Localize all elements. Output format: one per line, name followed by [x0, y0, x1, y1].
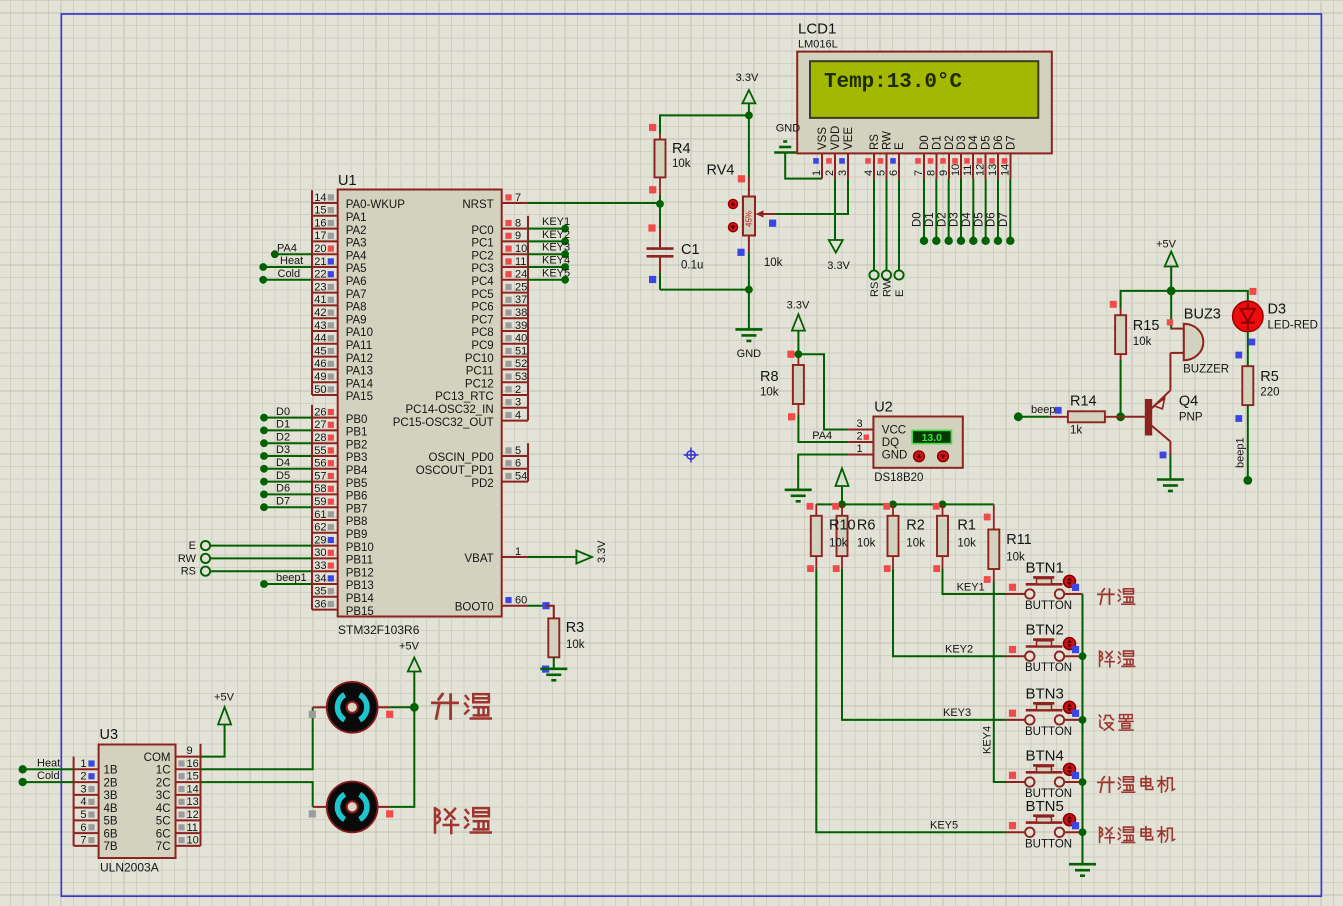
- junction rail at R6 top: [838, 501, 846, 509]
- svg-text:KEY4: KEY4: [542, 255, 570, 267]
- svg-text:1C: 1C: [156, 765, 171, 777]
- wire +5V rail (R15 / buzzer / D3): [1121, 291, 1248, 308]
- terminal E: [189, 540, 312, 552]
- schematic origin marker: [684, 448, 699, 463]
- svg-text:PC9: PC9: [471, 340, 493, 352]
- U2 pin 1 GND: [848, 443, 907, 462]
- U1 pin 46 PA13: [312, 357, 373, 378]
- svg-text:BTN5: BTN5: [1026, 798, 1064, 815]
- svg-text:D0: D0: [919, 135, 931, 150]
- svg-text:PA3: PA3: [346, 238, 367, 250]
- svg-text:NRST: NRST: [462, 199, 493, 211]
- svg-text:57: 57: [314, 470, 326, 482]
- svg-text:D2: D2: [944, 135, 956, 150]
- U1 pin 55 PB3: [312, 443, 367, 464]
- svg-text:10k: 10k: [672, 158, 691, 170]
- U3 pin 9 COM: [144, 744, 201, 764]
- svg-text:PB13: PB13: [346, 580, 374, 592]
- wire/net label KEY5: [528, 267, 570, 283]
- U1 pin 38 PC7: [471, 305, 528, 326]
- wire D4 from LCD pin 11: [961, 179, 978, 245]
- wire D5 from LCD pin 12: [973, 179, 990, 245]
- svg-text:BTN3: BTN3: [1026, 685, 1064, 702]
- U1 pin 7 NRST: [462, 192, 528, 211]
- LCD1 pin 11 D4: [962, 135, 980, 179]
- U2 pin 3 VCC: [848, 418, 906, 437]
- svg-text:PA0-WKUP: PA0-WKUP: [346, 199, 406, 211]
- power terminal 3.3V below LCD VDD: [827, 179, 850, 272]
- svg-text:Temp:13.0°C: Temp:13.0°C: [824, 71, 962, 94]
- svg-text:PA10: PA10: [346, 327, 373, 339]
- svg-text:0.1u: 0.1u: [681, 260, 703, 272]
- U1 pin 17 PA3: [312, 229, 367, 250]
- U1 pin 45 PA12: [312, 344, 373, 365]
- svg-text:1: 1: [515, 546, 521, 558]
- LCD1 pin 7 D0: [913, 135, 931, 178]
- svg-text:56: 56: [314, 458, 326, 470]
- power terminal +5V at U3 COM: [201, 692, 235, 757]
- resistor R6 10k: [832, 503, 875, 572]
- wire RV4 wiper to LCD VEE: [776, 179, 849, 214]
- label 升温电机 for BTN4: [1098, 776, 1175, 792]
- U1 pin 54 PD2: [471, 469, 528, 490]
- terminal D1: [260, 419, 312, 435]
- junction button rail: [1079, 828, 1087, 836]
- junction 3.3V rail node: [745, 112, 753, 120]
- svg-text:PC14-OSC32_IN: PC14-OSC32_IN: [405, 404, 493, 416]
- svg-text:E: E: [894, 142, 906, 150]
- U1 pin 21 PA5: [312, 254, 367, 275]
- wire C1 bottom / RV4 bottom to ground: [660, 289, 749, 291]
- svg-text:D0: D0: [912, 212, 924, 227]
- svg-text:11: 11: [962, 165, 974, 176]
- U1 pin 58 PB6: [312, 482, 367, 503]
- svg-text:RW: RW: [881, 278, 893, 297]
- svg-text:PC12: PC12: [465, 378, 494, 390]
- U1 pin 30 PB11: [312, 546, 373, 567]
- junction Q4 base node: [1116, 412, 1125, 421]
- wire D3 from LCD pin 10: [949, 179, 966, 245]
- wire Q4 collector to ground: [1160, 452, 1171, 479]
- svg-text:50: 50: [314, 384, 326, 396]
- svg-text:PC7: PC7: [471, 314, 493, 326]
- svg-text:41: 41: [314, 294, 326, 306]
- U1 pin 28 PB2: [312, 430, 367, 451]
- svg-text:D4: D4: [961, 212, 973, 227]
- svg-text:R8: R8: [760, 369, 779, 385]
- LCD1 pin 5 RW: [875, 131, 893, 179]
- power terminal 3.3V above R8: [787, 300, 810, 355]
- U3 pin 10 7C: [156, 833, 201, 853]
- svg-text:1B: 1B: [104, 765, 118, 777]
- svg-text:D1: D1: [276, 419, 290, 431]
- U1 pin 42 PA9: [312, 305, 367, 326]
- svg-text:BTN1: BTN1: [1026, 560, 1064, 577]
- svg-text:STM32F103R6: STM32F103R6: [338, 623, 420, 637]
- svg-text:beep1: beep1: [1234, 437, 1246, 468]
- svg-text:55: 55: [314, 445, 326, 457]
- wire R4 bottom to NRST node: [659, 195, 661, 204]
- terminal Heat: [259, 255, 312, 271]
- svg-text:GND: GND: [882, 450, 908, 462]
- svg-text:22: 22: [314, 269, 326, 281]
- LED D3 LED-RED: [1233, 288, 1318, 332]
- label heat motor: [433, 694, 491, 718]
- svg-text:7: 7: [80, 835, 86, 847]
- temperature sensor U2 DS18B20: [873, 400, 962, 485]
- svg-text:11: 11: [187, 822, 198, 834]
- svg-text:10k: 10k: [906, 538, 925, 550]
- U3 pin 2 2B: [74, 769, 118, 789]
- svg-text:Heat: Heat: [37, 757, 60, 769]
- svg-text:PNP: PNP: [1179, 412, 1203, 424]
- transistor Q4 PNP: [1121, 353, 1203, 455]
- svg-text:R10: R10: [829, 518, 856, 534]
- U1 pin 41 PA8: [312, 293, 367, 314]
- svg-text:KEY2: KEY2: [945, 644, 973, 656]
- wire R5 to beep1 terminal: [1234, 405, 1248, 480]
- terminal D2: [260, 431, 312, 447]
- U1 pin 49 PA14: [312, 369, 374, 390]
- wire NRST net (U1 pin7 to R4/C1 node): [528, 202, 660, 204]
- LCD1 LM016L display module: [797, 21, 1052, 154]
- svg-text:PC4: PC4: [471, 276, 494, 288]
- svg-text:BTN4: BTN4: [1026, 748, 1064, 765]
- wire/net label KEY2: [528, 229, 570, 245]
- svg-text:R5: R5: [1260, 369, 1279, 385]
- U1 pin 44 PA11: [312, 331, 372, 352]
- svg-text:3.3V: 3.3V: [736, 72, 759, 84]
- driver U3 ULN2003A body: [99, 727, 176, 875]
- svg-text:VCC: VCC: [882, 425, 906, 437]
- svg-text:7B: 7B: [104, 841, 118, 853]
- svg-text:1: 1: [857, 443, 863, 455]
- svg-text:PC3: PC3: [471, 263, 493, 275]
- svg-text:29: 29: [314, 534, 326, 546]
- svg-text:PC6: PC6: [471, 302, 493, 314]
- svg-text:KEY5: KEY5: [542, 267, 570, 279]
- svg-text:VBAT: VBAT: [465, 553, 494, 565]
- U1 pin 53 PC12: [465, 369, 528, 390]
- svg-text:13.0: 13.0: [922, 432, 943, 444]
- svg-text:GND: GND: [776, 123, 801, 135]
- svg-text:3: 3: [515, 397, 521, 409]
- svg-text:21: 21: [314, 256, 326, 268]
- svg-text:16: 16: [314, 217, 326, 229]
- svg-text:PA4: PA4: [277, 242, 297, 254]
- svg-text:D7: D7: [276, 495, 290, 507]
- U1 pin 60 BOOT0: [455, 595, 528, 614]
- LCD1 pin 8 D1: [925, 135, 943, 178]
- ground below Q4: [1157, 480, 1184, 492]
- svg-text:24: 24: [515, 269, 527, 281]
- motor M1 (heat): [309, 682, 394, 733]
- junction +5V rail at buzzer: [1167, 287, 1176, 296]
- terminal Heat at U3: [19, 757, 74, 773]
- U1 pin 20 PA4: [312, 241, 367, 262]
- resistor R5 220: [1235, 366, 1279, 422]
- svg-text:25: 25: [515, 281, 527, 293]
- U1 pin 2 PC13_RTC: [435, 382, 528, 403]
- svg-text:BUTTON: BUTTON: [1025, 600, 1072, 612]
- terminal RS below LCD: [869, 179, 881, 297]
- U1 pin 14 PA0-WKUP: [312, 190, 405, 211]
- LCD1 pin 14 D7: [999, 135, 1017, 178]
- label 降温电机 for BTN5: [1100, 827, 1175, 843]
- U1 pin 37 PC6: [471, 293, 528, 314]
- U1 pin 61 PB8: [312, 507, 367, 528]
- junction button rail: [1079, 652, 1087, 660]
- svg-text:2: 2: [857, 431, 863, 443]
- svg-text:4: 4: [80, 796, 86, 808]
- svg-text:36: 36: [314, 598, 326, 610]
- node indicator BOOT0 wire: [542, 602, 549, 609]
- svg-text:Heat: Heat: [280, 255, 303, 267]
- svg-text:D6: D6: [986, 212, 998, 227]
- svg-text:RW: RW: [178, 553, 197, 565]
- svg-text:2B: 2B: [104, 777, 118, 789]
- svg-text:D2: D2: [936, 212, 948, 227]
- svg-text:PA11: PA11: [346, 340, 372, 352]
- LCD1 pin 1 VSS: [811, 127, 829, 179]
- svg-text:PA13: PA13: [346, 366, 373, 378]
- svg-text:PC8: PC8: [471, 327, 493, 339]
- wire KEY5 net (R10 to BTN5): [816, 569, 1006, 833]
- svg-text:46: 46: [314, 358, 326, 370]
- svg-text:R3: R3: [566, 620, 585, 636]
- svg-text:D3: D3: [956, 135, 968, 150]
- wire/net label KEY4: [528, 255, 570, 271]
- svg-text:COM: COM: [144, 752, 171, 764]
- svg-text:4B: 4B: [104, 803, 118, 815]
- svg-text:33: 33: [314, 560, 326, 572]
- svg-text:R11: R11: [1006, 532, 1032, 548]
- svg-text:27: 27: [314, 419, 326, 431]
- svg-text:PB9: PB9: [346, 529, 368, 541]
- terminal beep1 (PB13): [260, 572, 312, 588]
- svg-text:2: 2: [515, 384, 521, 396]
- svg-text:10k: 10k: [829, 538, 848, 550]
- svg-text:D6: D6: [276, 483, 290, 495]
- wire D2 from LCD pin 9: [936, 179, 953, 245]
- svg-text:PB14: PB14: [346, 593, 375, 605]
- junction button rail: [1079, 778, 1087, 786]
- svg-text:59: 59: [314, 496, 326, 508]
- wire D6 from LCD pin 13: [986, 179, 1003, 245]
- wire resistor network supply rail: [816, 503, 994, 505]
- wire BOOT0 to R3: [528, 605, 546, 607]
- svg-text:KEY1: KEY1: [542, 216, 570, 228]
- resistor R1 10k: [933, 503, 976, 572]
- svg-text:15: 15: [314, 205, 326, 217]
- svg-text:58: 58: [314, 483, 326, 495]
- label 设置 for BTN3: [1099, 715, 1133, 730]
- power terminal above resistor network: [836, 468, 849, 504]
- svg-text:PC1: PC1: [471, 238, 493, 250]
- svg-text:VDD: VDD: [830, 126, 842, 150]
- svg-text:R6: R6: [857, 518, 876, 534]
- terminal RW: [178, 553, 312, 565]
- svg-text:10: 10: [950, 164, 962, 176]
- wire motor +5V rail: [390, 707, 414, 807]
- svg-text:23: 23: [314, 281, 326, 293]
- wire U3 2C to motor M2: [201, 782, 313, 807]
- svg-text:LM016L: LM016L: [798, 39, 838, 51]
- svg-text:220: 220: [1260, 387, 1279, 399]
- svg-text:6C: 6C: [156, 828, 171, 840]
- svg-text:3.3V: 3.3V: [787, 300, 810, 312]
- svg-text:PA9: PA9: [346, 314, 367, 326]
- svg-text:D3: D3: [276, 444, 290, 456]
- svg-text:PA7: PA7: [346, 289, 367, 301]
- svg-text:10k: 10k: [764, 257, 783, 269]
- svg-text:KEY3: KEY3: [542, 242, 570, 254]
- U3 pin 7 7B: [74, 833, 118, 853]
- LCD1 pin 4 RS: [863, 134, 881, 179]
- U1 pin 22 PA6: [312, 267, 367, 288]
- U3 pin 11 6C: [156, 820, 201, 840]
- ground below button rail: [1069, 864, 1096, 876]
- LCD1 pin 12 D5: [974, 135, 992, 178]
- junction at RV4 bottom wire: [745, 286, 753, 294]
- svg-text:2C: 2C: [156, 777, 171, 789]
- svg-text:39: 39: [515, 320, 527, 332]
- resistor R15 10k: [1110, 301, 1160, 360]
- U1 pin 34 PB13: [312, 571, 374, 592]
- U2 decrement button: [938, 451, 949, 462]
- svg-text:E: E: [189, 540, 196, 552]
- svg-text:PC13_RTC: PC13_RTC: [435, 391, 494, 403]
- svg-text:49: 49: [314, 371, 326, 383]
- svg-text:7: 7: [913, 170, 925, 176]
- U3 pin 15 2C: [156, 769, 201, 789]
- terminal beep1 end dot: [1243, 476, 1252, 485]
- U3 pin 16 1C: [156, 757, 201, 777]
- U3 pin 4 4B: [74, 795, 118, 815]
- U1 pin 40 PC9: [471, 331, 528, 352]
- terminal D3: [260, 444, 312, 460]
- junction motor rail: [410, 703, 419, 712]
- wire KEY3 net (R6 to BTN3): [842, 569, 1006, 720]
- svg-text:Cold: Cold: [278, 268, 301, 280]
- svg-text:R1: R1: [957, 518, 976, 534]
- svg-text:D3: D3: [1268, 302, 1287, 318]
- svg-text:10k: 10k: [1006, 552, 1025, 564]
- svg-text:D7: D7: [1006, 135, 1018, 150]
- svg-text:PA1: PA1: [346, 212, 367, 224]
- resistor R11 10k: [984, 504, 1032, 582]
- svg-text:C1: C1: [681, 242, 700, 258]
- svg-text:PB3: PB3: [346, 452, 368, 464]
- svg-text:BUZZER: BUZZER: [1183, 364, 1229, 376]
- label cool motor: [435, 808, 491, 833]
- svg-text:PB11: PB11: [346, 555, 373, 567]
- terminal E below LCD: [894, 179, 906, 297]
- wire/net label KEY1: [528, 216, 570, 232]
- resistor R2 10k: [883, 503, 925, 572]
- svg-text:VSS: VSS: [817, 127, 829, 150]
- svg-text:3.3V: 3.3V: [596, 540, 608, 563]
- U1 pin 27 PB1: [312, 418, 367, 439]
- svg-text:R2: R2: [906, 518, 925, 534]
- svg-text:6: 6: [888, 170, 900, 176]
- svg-text:U2: U2: [874, 400, 893, 416]
- svg-text:62: 62: [314, 522, 326, 534]
- svg-text:PB6: PB6: [346, 491, 368, 503]
- U3 pin 1 1B: [74, 757, 118, 777]
- U1 pin 3 PC14-OSC32_IN: [405, 395, 528, 416]
- svg-text:PC10: PC10: [465, 353, 494, 365]
- svg-text:26: 26: [314, 406, 326, 418]
- svg-text:1: 1: [80, 758, 86, 770]
- svg-text:PB0: PB0: [346, 414, 368, 426]
- wire U2 GND to ground: [798, 455, 848, 490]
- svg-text:4C: 4C: [156, 803, 171, 815]
- svg-text:PC2: PC2: [471, 250, 493, 262]
- LCD1 pin 2 VDD: [824, 126, 842, 179]
- svg-text:51: 51: [515, 345, 527, 357]
- power terminal 3.3V above R4/RV4 rail: [736, 72, 759, 115]
- svg-text:LED-RED: LED-RED: [1268, 320, 1318, 332]
- svg-text:D5: D5: [276, 470, 290, 482]
- svg-text:42: 42: [314, 307, 326, 319]
- U1 pin 59 PB7: [312, 494, 367, 515]
- U1 pin 10 PC2: [471, 241, 528, 262]
- svg-text:R15: R15: [1133, 318, 1160, 334]
- LCD1 pin 9 D2: [938, 135, 956, 178]
- svg-text:60: 60: [515, 595, 527, 607]
- svg-text:RV4: RV4: [707, 163, 735, 179]
- wire D3 to R5: [1235, 332, 1255, 367]
- svg-text:38: 38: [515, 307, 527, 319]
- push button BTN4: [1006, 748, 1083, 801]
- svg-text:37: 37: [515, 294, 527, 306]
- svg-text:5B: 5B: [104, 816, 118, 828]
- svg-text:Cold: Cold: [37, 770, 60, 782]
- svg-text:3: 3: [837, 170, 849, 176]
- svg-text:12: 12: [974, 164, 986, 176]
- U1 pin 50 PA15: [312, 382, 373, 403]
- svg-text:PB1: PB1: [346, 427, 368, 439]
- svg-text:beep: beep: [1031, 404, 1055, 416]
- svg-text:7C: 7C: [156, 841, 171, 853]
- U1 pin 51 PC10: [465, 344, 528, 365]
- motor M2 (cool): [309, 782, 394, 833]
- svg-text:KEY2: KEY2: [542, 229, 570, 241]
- U1 pin 8 PC0: [471, 216, 528, 237]
- svg-text:14: 14: [187, 783, 199, 795]
- svg-text:8: 8: [925, 170, 937, 176]
- svg-text:43: 43: [314, 320, 326, 332]
- ground at LCD VSS: [774, 123, 822, 179]
- svg-text:VEE: VEE: [843, 127, 855, 150]
- U1 pin 26 PB0: [312, 405, 367, 426]
- svg-text:10k: 10k: [957, 538, 976, 550]
- svg-text:1k: 1k: [1070, 425, 1082, 437]
- resistor R8 10k: [760, 358, 804, 420]
- svg-text:5: 5: [875, 170, 887, 176]
- svg-text:LCD1: LCD1: [798, 21, 836, 38]
- svg-text:9: 9: [515, 230, 521, 242]
- power terminal +5V above buzzer rail: [1156, 239, 1178, 291]
- resistor R3 10k: [542, 606, 585, 673]
- svg-text:PB15: PB15: [346, 606, 374, 618]
- svg-text:PA5: PA5: [346, 263, 367, 275]
- U1 pin 25 PC5: [471, 280, 528, 301]
- svg-text:8: 8: [515, 217, 521, 229]
- wire D7 from LCD pin 14: [998, 179, 1015, 245]
- svg-text:PD2: PD2: [471, 478, 493, 490]
